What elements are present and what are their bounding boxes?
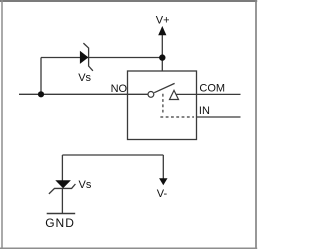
svg-text:COM: COM (199, 83, 225, 95)
svg-text:NO: NO (111, 83, 128, 95)
svg-text:V+: V+ (156, 15, 170, 27)
svg-text:IN: IN (199, 105, 210, 117)
svg-text:Vs: Vs (78, 72, 91, 84)
svg-text:V-: V- (157, 188, 168, 200)
svg-text:GND: GND (45, 216, 75, 230)
svg-text:Vs: Vs (79, 179, 92, 191)
